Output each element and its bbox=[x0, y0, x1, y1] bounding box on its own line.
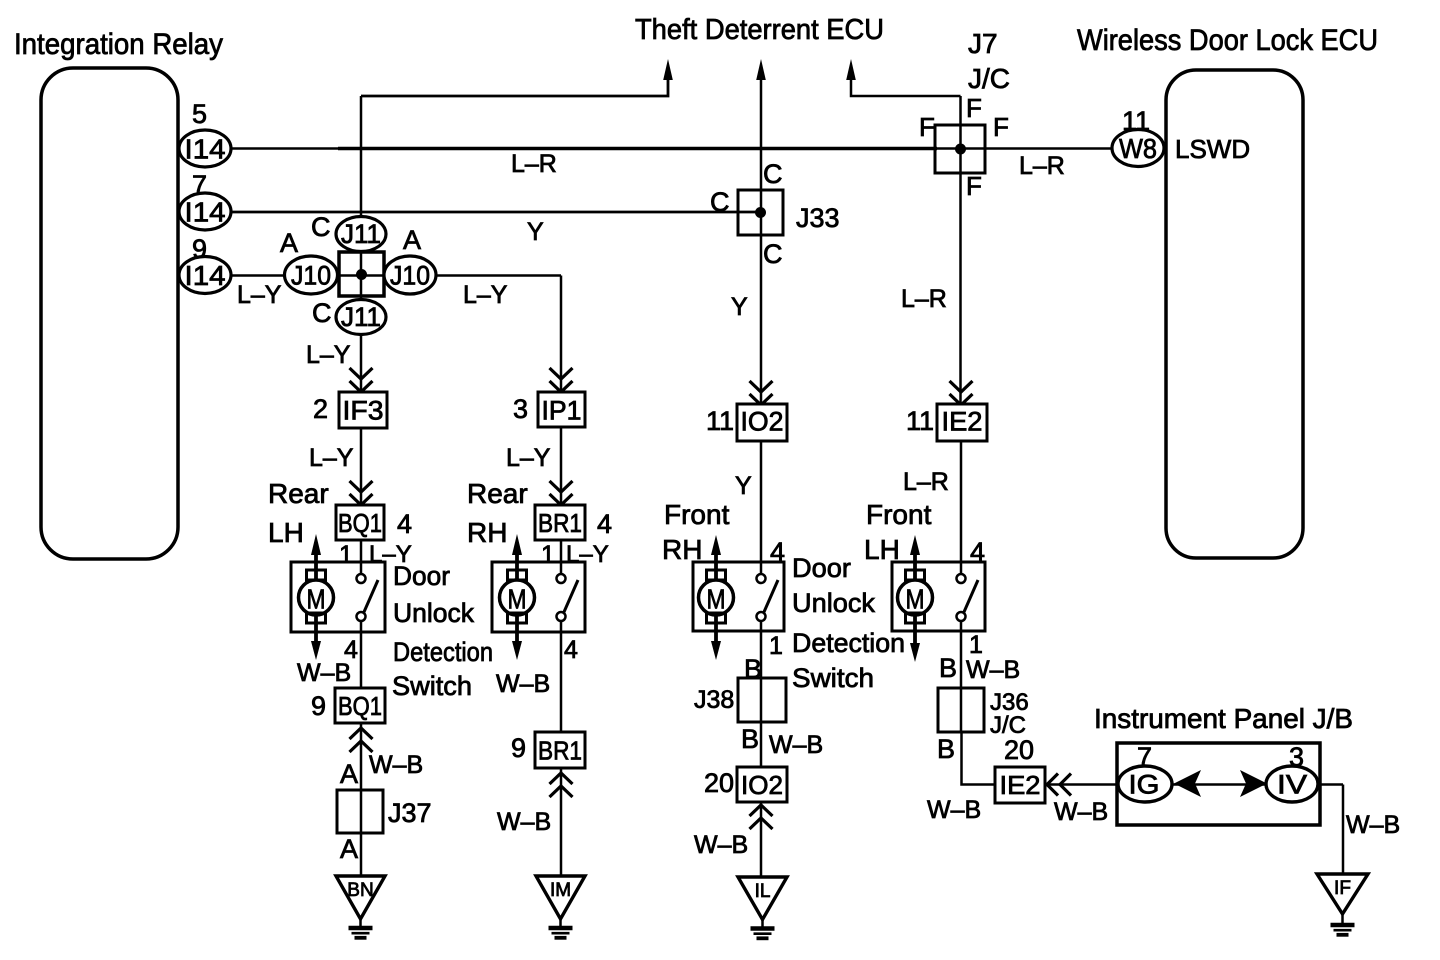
connector box IE2 pin20 bbox=[995, 767, 1045, 803]
connector box IF3 pin2 bbox=[339, 392, 387, 428]
junction dot J7 bbox=[955, 144, 966, 155]
svg-text:4: 4 bbox=[564, 636, 578, 664]
switch contacts block1 bbox=[357, 574, 379, 621]
svg-text:4: 4 bbox=[770, 537, 785, 567]
svg-text:IF3: IF3 bbox=[343, 396, 384, 426]
connector oval I14 pin9 bbox=[179, 257, 231, 294]
motor M4 Front LH bbox=[898, 535, 933, 662]
connector box BQ1 pin4 bbox=[336, 505, 384, 540]
wire main L-R bold segment bbox=[338, 147, 937, 151]
svg-text:IV: IV bbox=[1277, 770, 1307, 800]
svg-text:F: F bbox=[919, 112, 935, 142]
junction square J38 bbox=[738, 678, 786, 722]
svg-text:I14: I14 bbox=[185, 134, 226, 165]
chevron arrow down into IP1 bbox=[550, 368, 573, 392]
svg-text:W–B: W–B bbox=[966, 656, 1020, 684]
svg-text:20: 20 bbox=[1004, 735, 1034, 765]
svg-text:J10: J10 bbox=[390, 261, 430, 291]
junction square J7 J/C bbox=[935, 125, 985, 173]
wire IE2 to switch contact block4 bbox=[960, 439, 963, 575]
svg-text:W–B: W–B bbox=[297, 659, 351, 687]
svg-text:2: 2 bbox=[313, 394, 328, 424]
svg-text:LSWD: LSWD bbox=[1175, 134, 1250, 164]
junction square J33 bbox=[738, 190, 783, 235]
svg-text:Front: Front bbox=[664, 499, 730, 530]
svg-text:M: M bbox=[307, 584, 326, 615]
arrowhead up arrow 1 bbox=[663, 59, 673, 80]
svg-text:B: B bbox=[744, 654, 762, 684]
Integration Relay block outline bbox=[41, 68, 178, 559]
svg-text:IP1: IP1 bbox=[542, 396, 582, 426]
wire L-Y horizontal from I14 pin9 through J10 junction bbox=[231, 274, 561, 277]
svg-text:J/C: J/C bbox=[968, 63, 1010, 94]
svg-text:J7: J7 bbox=[968, 28, 998, 59]
junction square J10/J11 cross bbox=[339, 252, 384, 296]
connector oval I14 pin5 bbox=[179, 130, 231, 167]
junction square J37 bbox=[337, 790, 383, 833]
connector box IP1 pin3 bbox=[538, 392, 585, 427]
svg-text:A: A bbox=[340, 759, 358, 789]
svg-text:J37: J37 bbox=[388, 798, 432, 828]
svg-text:L–Y: L–Y bbox=[566, 541, 609, 568]
wire BQ1 to switch contact block1 bbox=[360, 540, 363, 575]
connector box IO2 pin20 bbox=[737, 767, 787, 802]
svg-text:B: B bbox=[741, 724, 759, 754]
wire IF3 to BQ1 bbox=[360, 427, 363, 505]
svg-text:C: C bbox=[763, 239, 783, 269]
svg-text:Y: Y bbox=[735, 472, 752, 500]
chevron arrow down into IE2 pin11 bbox=[950, 381, 973, 405]
svg-text:1: 1 bbox=[769, 632, 783, 660]
svg-text:J10: J10 bbox=[291, 261, 331, 291]
arrowhead left between IG and IV bbox=[1174, 770, 1201, 797]
svg-text:1: 1 bbox=[541, 541, 555, 569]
switch contacts block2 bbox=[557, 574, 579, 621]
svg-text:Rear: Rear bbox=[268, 478, 329, 509]
svg-text:Wireless Door Lock ECU: Wireless Door Lock ECU bbox=[1077, 24, 1378, 57]
chevron arrow left pair at IE2 pin20 bbox=[1047, 774, 1071, 796]
junction dot J10/J11 bbox=[356, 269, 367, 280]
svg-text:L–Y: L–Y bbox=[306, 341, 351, 369]
svg-text:F: F bbox=[966, 171, 982, 201]
svg-text:A: A bbox=[280, 228, 298, 258]
svg-text:BR1: BR1 bbox=[538, 736, 582, 766]
svg-text:Y: Y bbox=[731, 293, 748, 321]
svg-text:Door: Door bbox=[792, 553, 851, 583]
Wireless Door Lock ECU block outline bbox=[1166, 70, 1303, 558]
svg-text:J11: J11 bbox=[341, 219, 381, 249]
svg-text:C: C bbox=[312, 298, 332, 328]
svg-text:J38: J38 bbox=[694, 686, 734, 714]
svg-text:C: C bbox=[710, 187, 730, 217]
svg-text:RH: RH bbox=[662, 534, 702, 565]
svg-text:Switch: Switch bbox=[792, 663, 874, 693]
wire switch block1 to BQ1 pin9 box bbox=[360, 620, 363, 688]
svg-text:L–R: L–R bbox=[903, 468, 949, 496]
wire right branch from J10 down to IP1 bbox=[560, 276, 563, 393]
connector oval W8 pin11 bbox=[1112, 130, 1164, 167]
ground IF bbox=[1317, 874, 1368, 935]
chevron arrow up into BR1 pin9 bbox=[550, 773, 573, 797]
svg-text:Y: Y bbox=[527, 218, 544, 246]
junction dot J33 bbox=[755, 207, 766, 218]
door unlock detection switch Rear LH box bbox=[291, 562, 385, 632]
svg-text:IL: IL bbox=[755, 881, 771, 902]
svg-text:B: B bbox=[939, 653, 957, 683]
wire vertical column x361 from elbow through J11 ovals bbox=[360, 96, 363, 392]
connector oval J11 bottom bbox=[336, 300, 386, 335]
svg-text:IO2: IO2 bbox=[741, 770, 783, 800]
connector oval IV pin3 bbox=[1266, 766, 1318, 802]
wire main L-R horizontal from I14 pin5 to W8 bbox=[231, 147, 1112, 149]
chevron arrow down into BQ1 bbox=[350, 481, 373, 505]
svg-text:I14: I14 bbox=[185, 260, 226, 291]
svg-text:IM: IM bbox=[550, 880, 571, 901]
wire IO2 pin20 to ground IL bbox=[760, 802, 763, 877]
svg-text:L–R: L–R bbox=[901, 285, 947, 313]
switch contacts block4 bbox=[957, 574, 979, 621]
svg-text:L–R: L–R bbox=[1019, 152, 1065, 180]
svg-text:L–Y: L–Y bbox=[237, 281, 282, 309]
svg-text:W8: W8 bbox=[1119, 133, 1157, 164]
svg-text:4: 4 bbox=[970, 537, 985, 567]
ground BN bbox=[336, 876, 385, 938]
svg-text:RH: RH bbox=[467, 517, 507, 548]
svg-text:W–B: W–B bbox=[496, 670, 550, 698]
motor M2 Rear RH bbox=[500, 534, 535, 660]
svg-text:BQ1: BQ1 bbox=[338, 508, 382, 538]
chevron arrow down into IO2 pin11 bbox=[750, 381, 773, 405]
wire IP1 to BR1 bbox=[560, 427, 563, 505]
svg-text:3: 3 bbox=[1289, 742, 1304, 772]
connector oval I14 pin7 bbox=[179, 193, 231, 230]
svg-text:A: A bbox=[403, 225, 421, 255]
svg-text:W–B: W–B bbox=[927, 796, 981, 824]
svg-text:Integration Relay: Integration Relay bbox=[14, 28, 223, 61]
wire middle vertical Y x761 from arrow down to IO2 bbox=[760, 78, 763, 405]
svg-text:A: A bbox=[340, 834, 358, 864]
svg-text:LH: LH bbox=[268, 517, 304, 548]
svg-text:4: 4 bbox=[597, 509, 612, 539]
wire elbow to Theft Deterrent ECU arrow 1 bbox=[361, 78, 668, 96]
svg-text:20: 20 bbox=[704, 768, 734, 798]
svg-text:I14: I14 bbox=[185, 197, 226, 228]
wire switch block2 to BR1 pin9 box bbox=[560, 620, 563, 732]
svg-text:Front: Front bbox=[866, 499, 932, 530]
svg-text:11: 11 bbox=[706, 406, 734, 436]
junction square J36 J/C bbox=[938, 688, 984, 732]
wire BR1 pin9 to ground IM bbox=[560, 768, 563, 875]
chevron arrow up into BQ1 pin9 bbox=[350, 728, 373, 752]
ground IL bbox=[738, 877, 787, 938]
arrowhead up arrow 3 bbox=[846, 59, 856, 80]
connector box BQ1 pin9 bbox=[335, 688, 385, 723]
door unlock detection switch Front LH box bbox=[892, 562, 985, 631]
svg-text:Unlock: Unlock bbox=[792, 588, 876, 618]
svg-text:9: 9 bbox=[511, 733, 526, 763]
svg-text:W–B: W–B bbox=[369, 751, 423, 779]
svg-text:B: B bbox=[937, 734, 955, 764]
chevron arrow up into IO2 pin20 bbox=[750, 805, 773, 829]
motor M3 Front RH bbox=[699, 535, 734, 660]
svg-text:J11: J11 bbox=[341, 302, 381, 332]
door unlock detection switch Rear RH box bbox=[492, 562, 585, 632]
svg-text:11: 11 bbox=[906, 406, 934, 436]
ground IM bbox=[536, 876, 585, 938]
door unlock detection switch Front RH box bbox=[693, 562, 784, 631]
wire switch block3 through J38 to IO2 pin20 bbox=[760, 620, 763, 767]
svg-text:LH: LH bbox=[864, 534, 900, 565]
svg-text:IG: IG bbox=[1129, 770, 1160, 800]
svg-text:M: M bbox=[508, 584, 527, 615]
wire switch block4 through J36 bbox=[960, 620, 963, 732]
svg-text:3: 3 bbox=[513, 394, 528, 424]
switch contacts block3 bbox=[757, 574, 779, 621]
svg-text:BQ1: BQ1 bbox=[338, 691, 382, 721]
svg-text:Detection: Detection bbox=[393, 637, 493, 667]
svg-text:W–B: W–B bbox=[769, 731, 823, 759]
connector box BR1 pin4 bbox=[535, 505, 585, 540]
svg-text:W–B: W–B bbox=[497, 808, 551, 836]
connector oval IG pin7 bbox=[1118, 766, 1172, 802]
svg-text:Theft Deterrent ECU: Theft Deterrent ECU bbox=[635, 14, 884, 46]
arrowhead up arrow 2 bbox=[756, 59, 766, 80]
wire IV to ground IF bbox=[1342, 785, 1345, 876]
Instrument Panel J/B block outline bbox=[1117, 743, 1320, 825]
motor M1 Rear LH bbox=[299, 534, 334, 660]
chevron arrow down into BR1 bbox=[550, 481, 573, 505]
svg-text:Door: Door bbox=[393, 561, 450, 591]
svg-text:L–Y: L–Y bbox=[309, 444, 354, 472]
svg-text:W–B: W–B bbox=[694, 831, 748, 859]
svg-text:BN: BN bbox=[347, 880, 373, 901]
connector box IO2 pin11 bbox=[737, 404, 787, 441]
wire elbow to Theft Deterrent ECU arrow 3 bbox=[851, 78, 961, 96]
wire vertical L-R x960 from elbow through J7 square down to IE2 bbox=[959, 96, 962, 405]
svg-text:J33: J33 bbox=[796, 203, 840, 233]
wire BR1 to switch contact block2 bbox=[560, 540, 563, 575]
arrowhead right between IG and IV bbox=[1240, 770, 1267, 797]
svg-text:M: M bbox=[707, 584, 726, 615]
svg-text:Switch: Switch bbox=[392, 671, 472, 701]
svg-text:Instrument Panel J/B: Instrument Panel J/B bbox=[1094, 703, 1353, 734]
svg-text:Unlock: Unlock bbox=[393, 598, 474, 628]
svg-text:BR1: BR1 bbox=[538, 508, 582, 538]
svg-text:L–Y: L–Y bbox=[463, 281, 508, 309]
svg-text:L–Y: L–Y bbox=[506, 444, 551, 472]
svg-text:7: 7 bbox=[192, 170, 207, 200]
svg-text:IE2: IE2 bbox=[942, 407, 983, 437]
svg-text:7: 7 bbox=[1137, 742, 1152, 772]
connector oval J10 right bbox=[384, 256, 436, 294]
wire IO2 to switch contact block3 bbox=[760, 439, 763, 575]
connector box BR1 pin9 bbox=[535, 732, 585, 768]
svg-text:IF: IF bbox=[1334, 878, 1351, 899]
svg-text:W–B: W–B bbox=[1346, 811, 1400, 839]
svg-text:9: 9 bbox=[311, 691, 326, 721]
svg-text:Detection: Detection bbox=[792, 628, 905, 658]
svg-text:11: 11 bbox=[1122, 106, 1150, 136]
connector oval J10 left bbox=[285, 256, 338, 294]
wire BQ1 pin9 through J37 to ground BN bbox=[360, 723, 363, 875]
svg-text:L–R: L–R bbox=[511, 150, 557, 178]
wire J36 elbow to IE2 pin20 box bbox=[962, 732, 996, 785]
svg-text:1: 1 bbox=[339, 541, 353, 569]
svg-text:F: F bbox=[966, 93, 982, 123]
svg-text:Rear: Rear bbox=[467, 478, 528, 509]
svg-text:1: 1 bbox=[969, 631, 983, 659]
wire IE2 pin20 to Instrument Panel J/B IG-IV bbox=[1045, 783, 1343, 786]
chevron arrow down into IF3 bbox=[350, 368, 373, 392]
wire Y horizontal from I14 pin7 to J33 bbox=[231, 211, 760, 214]
svg-text:M: M bbox=[906, 584, 925, 615]
svg-text:C: C bbox=[763, 159, 783, 189]
connector oval J11 top bbox=[336, 217, 386, 252]
svg-text:IO2: IO2 bbox=[741, 407, 784, 437]
svg-text:F: F bbox=[993, 112, 1009, 142]
svg-text:IE2: IE2 bbox=[1000, 770, 1041, 800]
svg-text:4: 4 bbox=[397, 509, 412, 539]
svg-text:5: 5 bbox=[192, 99, 207, 129]
connector box IE2 pin11 bbox=[937, 404, 987, 441]
svg-text:W–B: W–B bbox=[1054, 798, 1108, 826]
svg-text:C: C bbox=[311, 212, 331, 242]
